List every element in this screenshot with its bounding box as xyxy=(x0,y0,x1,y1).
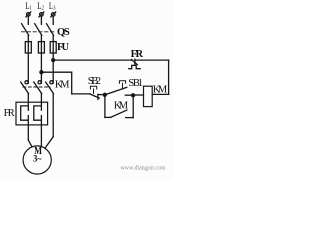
svg-text:M: M xyxy=(60,79,70,90)
svg-text:www.diangon.com: www.diangon.com xyxy=(121,166,166,172)
svg-text:L3: L3 xyxy=(49,1,56,12)
svg-text:QS: QS xyxy=(57,27,70,38)
svg-text:M: M xyxy=(158,84,168,95)
svg-text:L2: L2 xyxy=(37,1,44,12)
svg-text:L1: L1 xyxy=(25,1,32,12)
svg-text:R: R xyxy=(136,49,144,60)
svg-text:2: 2 xyxy=(96,76,101,87)
svg-text:FU: FU xyxy=(57,42,70,53)
svg-text:3~: 3~ xyxy=(33,154,41,165)
svg-text:R: R xyxy=(8,108,15,119)
svg-text:1: 1 xyxy=(138,78,143,89)
svg-text:M: M xyxy=(119,100,129,111)
